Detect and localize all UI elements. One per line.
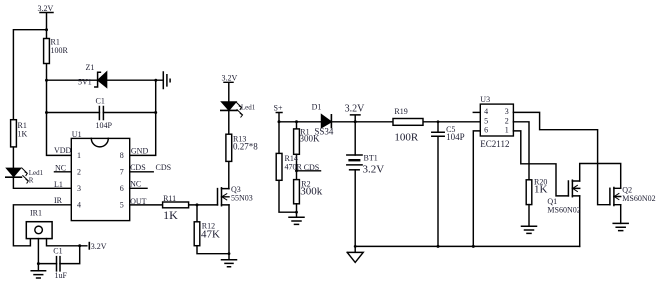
svg-text:GND: GND xyxy=(131,146,149,155)
diode D1 SS34 xyxy=(322,115,332,128)
svg-text:R19: R19 xyxy=(394,107,407,116)
wire LED to R13 to Q3 drain xyxy=(228,110,230,188)
capacitor C1 104P xyxy=(99,107,103,120)
svg-text:55N03: 55N03 xyxy=(231,194,253,203)
svg-text:MS60N02: MS60N02 xyxy=(622,194,655,203)
svg-text:7: 7 xyxy=(120,167,124,176)
transistor Q3 55N03 xyxy=(218,188,230,206)
capacitor C5 104P xyxy=(432,122,444,247)
svg-text:NC: NC xyxy=(55,163,66,172)
zener Z1 5V1 xyxy=(95,72,107,87)
resistor R13 0.27*8 xyxy=(226,134,232,161)
ground under R2 xyxy=(289,217,304,224)
svg-text:3.2V: 3.2V xyxy=(363,164,385,176)
svg-text:5: 5 xyxy=(484,117,488,126)
svg-text:SS34: SS34 xyxy=(314,127,334,137)
svg-text:0.27*8: 0.27*8 xyxy=(233,141,258,151)
svg-text:S+: S+ xyxy=(274,104,283,113)
svg-text:6: 6 xyxy=(120,184,124,193)
svg-text:3.2V: 3.2V xyxy=(222,74,238,83)
IC U1 body xyxy=(71,138,129,220)
svg-text:104P: 104P xyxy=(96,121,113,130)
power 3.2V near IR1 xyxy=(88,243,90,249)
svg-text:4: 4 xyxy=(77,200,81,209)
wire bottom ground rail xyxy=(355,245,580,247)
power 3.2V top-left xyxy=(40,13,53,39)
wire 3.2V rail down to U1 VDD xyxy=(47,39,72,156)
wire U3 pin2 to R20 xyxy=(513,122,529,180)
wire zener row xyxy=(47,79,163,81)
svg-text:Q3: Q3 xyxy=(231,185,241,194)
svg-text:Z1: Z1 xyxy=(86,63,95,72)
svg-text:OUT: OUT xyxy=(130,197,147,206)
wire U3 pin3 to Q2 gate xyxy=(513,112,610,204)
wire CDS stub xyxy=(297,170,321,172)
resistor R12 47K xyxy=(194,222,200,246)
transistor Q1 MS60N02 xyxy=(568,180,579,197)
ground under IR1 xyxy=(31,271,45,278)
svg-text:5: 5 xyxy=(120,200,124,209)
svg-text:47K: 47K xyxy=(201,229,220,241)
svg-text:1uF: 1uF xyxy=(55,271,68,280)
ground under Q3 xyxy=(222,260,237,267)
resistor R1 1K left xyxy=(11,120,17,147)
wire U1 NC pin6 stub xyxy=(130,187,147,189)
svg-text:EC2112: EC2112 xyxy=(480,139,509,149)
svg-text:8: 8 xyxy=(120,151,124,160)
resistor R2 300k xyxy=(294,180,300,218)
terminal S+ xyxy=(276,113,282,122)
resistor R1 100R xyxy=(44,39,50,64)
svg-text:IR1: IR1 xyxy=(30,209,42,218)
wire Q1 drain to Q2 drain xyxy=(580,164,621,189)
svg-text:C1: C1 xyxy=(53,247,62,256)
svg-text:Q2: Q2 xyxy=(622,185,632,194)
svg-text:3.2V: 3.2V xyxy=(38,4,54,13)
svg-text:3.2V: 3.2V xyxy=(345,103,366,114)
power ground triangle under battery xyxy=(347,246,363,262)
ground right-facing near Z1 xyxy=(163,72,170,89)
resistor R20 1K xyxy=(526,180,532,226)
svg-text:100R: 100R xyxy=(394,132,419,144)
svg-text:D1: D1 xyxy=(312,103,322,112)
svg-text:1: 1 xyxy=(505,125,509,134)
wire U3 pin6 to ground rail xyxy=(473,131,480,247)
svg-text:104P: 104P xyxy=(446,132,465,142)
svg-text:470R: 470R xyxy=(285,163,303,172)
svg-text:L1: L1 xyxy=(54,180,63,189)
svg-text:MS60N02: MS60N02 xyxy=(547,206,580,215)
svg-text:CDS: CDS xyxy=(130,163,146,172)
svg-text:Led1: Led1 xyxy=(241,104,256,112)
svg-text:BT1: BT1 xyxy=(364,154,378,163)
wire left rail from 3.2V junction down xyxy=(13,30,46,169)
LED Led1 left xyxy=(6,168,29,183)
svg-text:1K: 1K xyxy=(163,208,178,222)
wire LED cathode to U1 L1 pin3 xyxy=(13,177,71,188)
svg-text:3: 3 xyxy=(505,107,509,116)
IC U3 body xyxy=(480,104,513,136)
IR receiver IR1 xyxy=(26,222,52,239)
svg-text:100R: 100R xyxy=(51,46,69,55)
svg-text:4: 4 xyxy=(484,107,488,116)
svg-text:2: 2 xyxy=(77,167,81,176)
svg-text:2: 2 xyxy=(505,117,509,126)
svg-text:1: 1 xyxy=(77,151,81,160)
svg-text:CDS: CDS xyxy=(156,163,172,172)
ground under R20 xyxy=(522,226,537,233)
svg-text:NC: NC xyxy=(130,180,141,189)
power 3.2V battery rail xyxy=(351,115,361,122)
wire right vertical to U1 GND xyxy=(130,80,156,155)
wire U1 CDS pin7 stub xyxy=(130,171,154,173)
svg-text:IR: IR xyxy=(54,196,63,205)
transistor Q2 MS60N02 xyxy=(610,188,621,206)
svg-text:1K: 1K xyxy=(534,184,548,196)
svg-text:U1: U1 xyxy=(72,130,82,139)
wire U3 pin4 stub xyxy=(473,111,480,113)
svg-text:300k: 300k xyxy=(300,186,323,198)
wire R12 branch xyxy=(197,205,229,254)
wire IR1 middle pin to ground xyxy=(37,239,39,271)
svg-text:R14: R14 xyxy=(285,154,298,163)
wire C1 104P row xyxy=(47,112,156,114)
wire U1 OUT pin5 to Q3 gate xyxy=(130,204,218,206)
wire C1 1uF branch xyxy=(38,246,79,264)
resistor R11 1K xyxy=(163,202,189,208)
svg-text:3: 3 xyxy=(77,184,81,193)
svg-text:CDS: CDS xyxy=(304,163,320,172)
battery BT1 3.2V xyxy=(347,122,362,247)
wire U1 IR pin4 to IR1 xyxy=(13,205,71,246)
wire IR1 right pin to 3.2V xyxy=(47,239,87,246)
resistor R1 300K xyxy=(294,122,300,180)
power 3.2V middle xyxy=(224,82,233,102)
wire U3 pin1 to Q1 gate xyxy=(513,131,568,196)
wire Q3 source to ground xyxy=(228,205,230,260)
svg-text:R11: R11 xyxy=(163,194,176,203)
svg-text:6: 6 xyxy=(484,125,488,134)
capacitor C1 1uF xyxy=(57,257,61,271)
svg-text:5V1: 5V1 xyxy=(78,78,92,87)
wire top rail S+ to U3 pin5 xyxy=(279,121,480,123)
wire Q1 source to rail xyxy=(579,196,581,247)
svg-text:VDD: VDD xyxy=(54,146,72,155)
resistor R14 470R xyxy=(276,122,296,212)
svg-text:1K: 1K xyxy=(18,130,28,139)
svg-text:R: R xyxy=(29,177,34,185)
LED Led1 middle xyxy=(221,102,243,117)
svg-text:3.2V: 3.2V xyxy=(91,242,107,251)
resistor R19 100R xyxy=(393,119,423,126)
wire U1 NC pin2 stub xyxy=(55,171,72,173)
svg-text:U3: U3 xyxy=(480,95,490,104)
svg-text:C1: C1 xyxy=(96,97,105,106)
ground under Q2 xyxy=(613,223,628,230)
wire Q2 source to ground xyxy=(620,205,622,224)
